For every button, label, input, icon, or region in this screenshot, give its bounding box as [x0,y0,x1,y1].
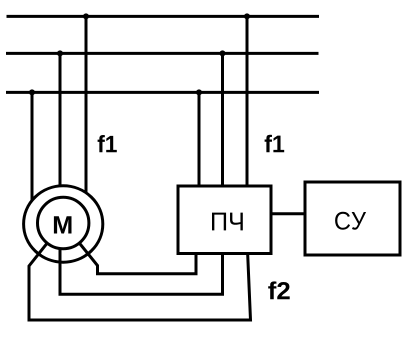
label f2 (converter output frequency) [268,281,289,299]
motor M1 inner circle [38,197,89,248]
frequency converter U1 label ПЧ [212,213,243,231]
wire: converter feeder from L2 [221,53,224,188]
node: junction dot L2/motor feeder [57,50,63,56]
node: junction dot L1/motor feeder [83,13,89,19]
frequency converter U1 box [178,186,271,254]
wire: motor phase C to converter output (bottom run, f2) [29,243,251,320]
bus line L1 [7,15,320,18]
bus line L2 [6,52,319,55]
wire: motor feeder from L1 [85,16,88,205]
label f1 (motor feeder frequency) [98,135,117,152]
node: junction dot L2/converter feeder [220,50,226,56]
wire: motor feeder from L3 [31,92,34,210]
wire: motor phase A to converter output (top run) [79,243,196,274]
wire: converter feeder from L3 [198,92,201,188]
wire: converter to control unit [271,212,305,215]
wire: converter feeder from L1 [246,16,249,188]
node: junction dot L3/motor feeder [29,89,35,95]
wire: motor phase B to converter output (middle run) [60,248,223,295]
label f1 (converter input frequency) [265,135,285,153]
wire: motor feeder from L2 [59,53,62,200]
node: junction dot L3/converter feeder [196,89,202,95]
motor M1 outer circle [24,186,103,262]
motor M1 label M [54,216,72,233]
control unit U2 box [305,182,400,255]
control unit U2 label СУ [335,212,366,230]
bus line L3 [6,91,319,94]
node: junction dot L1/converter feeder [244,13,250,19]
